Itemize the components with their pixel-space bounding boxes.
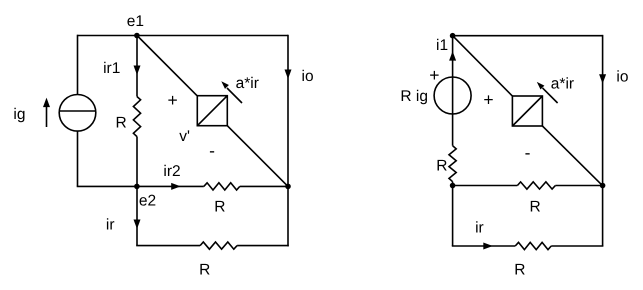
svg-text:e2: e2 — [139, 192, 156, 209]
wire diagonal e1 to dependent source — [137, 36, 197, 96]
svg-text:ir: ir — [475, 219, 484, 236]
resistor R middle rail (right circuit) — [517, 182, 555, 189]
arrow ir1 current (down) — [134, 66, 141, 76]
svg-text:R: R — [436, 157, 447, 174]
wire middle rail left segment (right circuit) — [453, 185, 518, 187]
wire right rail (left circuit) — [287, 35, 289, 187]
wire left rail upper segment — [77, 35, 79, 95]
svg-text:+: + — [167, 90, 177, 110]
wire left rail lower segment — [77, 131, 79, 186]
svg-text:+: + — [483, 90, 493, 110]
wire ir2 branch left segment — [137, 185, 204, 187]
arrow ir current (right, right circuit) — [483, 243, 493, 250]
wire diagonal i1 to dependent source — [453, 36, 513, 96]
wire ir2 branch right segment — [240, 185, 288, 187]
svg-text:R ig: R ig — [400, 88, 428, 105]
resistor R middle branch — [133, 97, 140, 137]
svg-text:+: + — [429, 65, 439, 85]
wire ir branch (e2 down) — [136, 186, 138, 245]
arrow ig current direction (up) — [43, 98, 50, 127]
svg-text:v': v' — [179, 128, 190, 145]
node at mid-left junction (right circuit) — [450, 183, 456, 189]
svg-text:e1: e1 — [127, 13, 144, 30]
wire diagonal dependent source to node (right) — [542, 126, 602, 186]
wire middle rail right segment (right circuit) — [555, 185, 602, 187]
wire source branch (i1 through circle to resistor) — [452, 36, 454, 146]
node e2 — [134, 184, 140, 190]
wire right rail lower segment (left circuit) — [287, 186, 289, 246]
svg-text:a*ir: a*ir — [236, 75, 259, 92]
wire bottom-left to e2 — [77, 185, 137, 187]
dependent source square (a*ir) — [197, 96, 227, 126]
resistor R bottom (left circuit) — [200, 242, 237, 249]
resistor R vertical (right circuit) — [449, 146, 456, 182]
svg-text:-: - — [209, 140, 215, 160]
wire left lower rail (right circuit) — [452, 186, 454, 247]
wire bottom rail left segment (right circuit) — [452, 245, 515, 247]
svg-text:R: R — [199, 262, 210, 279]
svg-text:ig: ig — [13, 106, 25, 123]
wire right rail (right circuit) — [602, 35, 604, 186]
source circle (R ig source) — [434, 77, 471, 114]
arrow a*ir direction — [221, 81, 242, 103]
svg-text:R: R — [530, 199, 541, 216]
arrow source direction (up) — [449, 51, 456, 61]
node e1 — [134, 33, 140, 39]
node at bottom-right junction (left circuit) — [285, 184, 291, 190]
node at mid-right junction (right circuit) — [600, 183, 606, 189]
wire bottom rail left segment — [136, 245, 200, 247]
wire top rail (left circuit) — [78, 35, 289, 37]
wire top rail (right circuit) — [453, 35, 603, 37]
svg-text:i1: i1 — [436, 37, 448, 54]
svg-text:io: io — [616, 68, 628, 85]
svg-text:R: R — [116, 115, 127, 132]
wire middle branch upper (e1 to resistor) — [136, 36, 138, 97]
arrow a*ir direction (right) — [537, 82, 558, 103]
wire middle branch lower (resistor to e2) — [136, 137, 138, 187]
svg-text:R: R — [214, 199, 225, 216]
resistor R bottom (right circuit) — [515, 242, 551, 249]
arrow ir current (down, left circuit) — [134, 220, 141, 230]
wire bottom rail right segment — [237, 245, 289, 247]
arrow io current (down, right circuit) — [599, 74, 606, 84]
svg-text:io: io — [302, 68, 314, 85]
svg-text:ir2: ir2 — [163, 163, 180, 180]
current source ig (circle with bar) — [59, 95, 96, 132]
wire diagonal dependent source to node — [227, 126, 288, 187]
arrow ir2 current (right) — [171, 183, 181, 190]
svg-text:ir: ir — [106, 217, 115, 234]
svg-text:-: - — [525, 142, 531, 162]
svg-text:R: R — [514, 262, 525, 279]
wire right rail lower segment (right circuit) — [602, 186, 604, 247]
wire bottom rail right segment (right circuit) — [551, 245, 603, 247]
dependent source square (a*ir, right) — [512, 96, 542, 126]
node i1 — [450, 33, 456, 39]
svg-text:ir1: ir1 — [103, 60, 120, 77]
wire source branch lower — [452, 182, 454, 186]
resistor R ir2 branch — [204, 183, 240, 190]
arrow io current (down, left circuit) — [285, 70, 292, 80]
svg-text:a*ir: a*ir — [551, 76, 574, 93]
